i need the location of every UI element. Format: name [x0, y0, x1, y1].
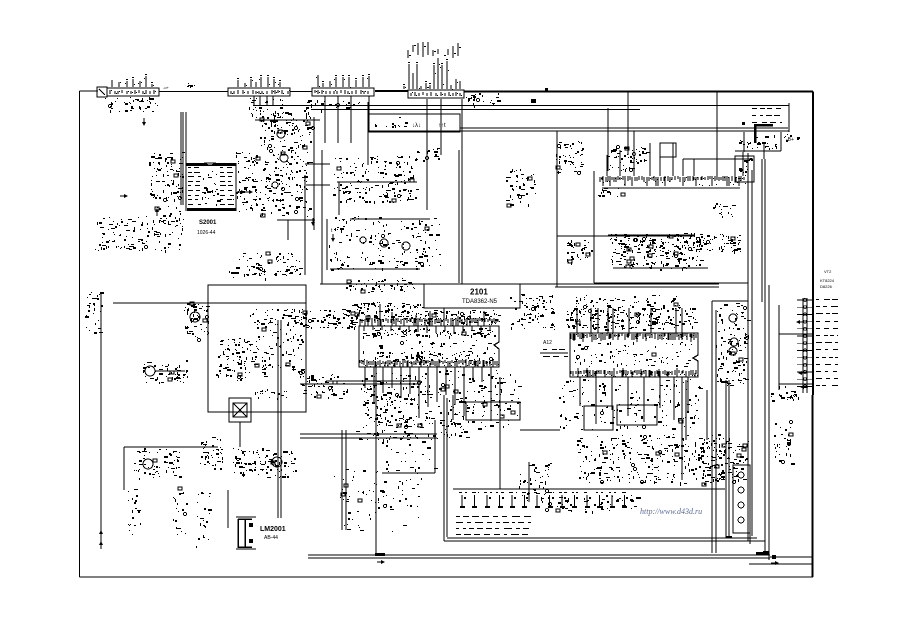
svg-text:S2001: S2001 [199, 220, 217, 226]
svg-text:2101: 2101 [470, 288, 488, 297]
svg-text:AB-44: AB-44 [264, 535, 278, 541]
svg-text:↓λ↓: ↓λ↓ [412, 123, 421, 129]
svg-text:A12: A12 [543, 340, 552, 346]
svg-text:-o+: -o+ [163, 85, 170, 90]
svg-text:↑↑t: ↑↑t [438, 123, 446, 129]
svg-text:LM2001: LM2001 [260, 526, 286, 533]
svg-text:TDA8362-N5: TDA8362-N5 [462, 299, 498, 305]
svg-text:1026-44: 1026-44 [197, 230, 216, 236]
